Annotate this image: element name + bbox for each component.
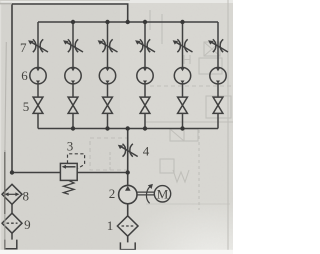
svg-text:8: 8 — [23, 188, 30, 203]
svg-text:5: 5 — [23, 99, 30, 114]
svg-text:M: M — [157, 186, 169, 201]
svg-text:7: 7 — [20, 40, 27, 55]
svg-text:9: 9 — [24, 217, 31, 232]
svg-text:4: 4 — [143, 144, 150, 159]
svg-text:6: 6 — [21, 68, 28, 83]
svg-text:3: 3 — [67, 139, 74, 154]
svg-text:1: 1 — [107, 218, 114, 233]
svg-text:2: 2 — [109, 186, 116, 201]
